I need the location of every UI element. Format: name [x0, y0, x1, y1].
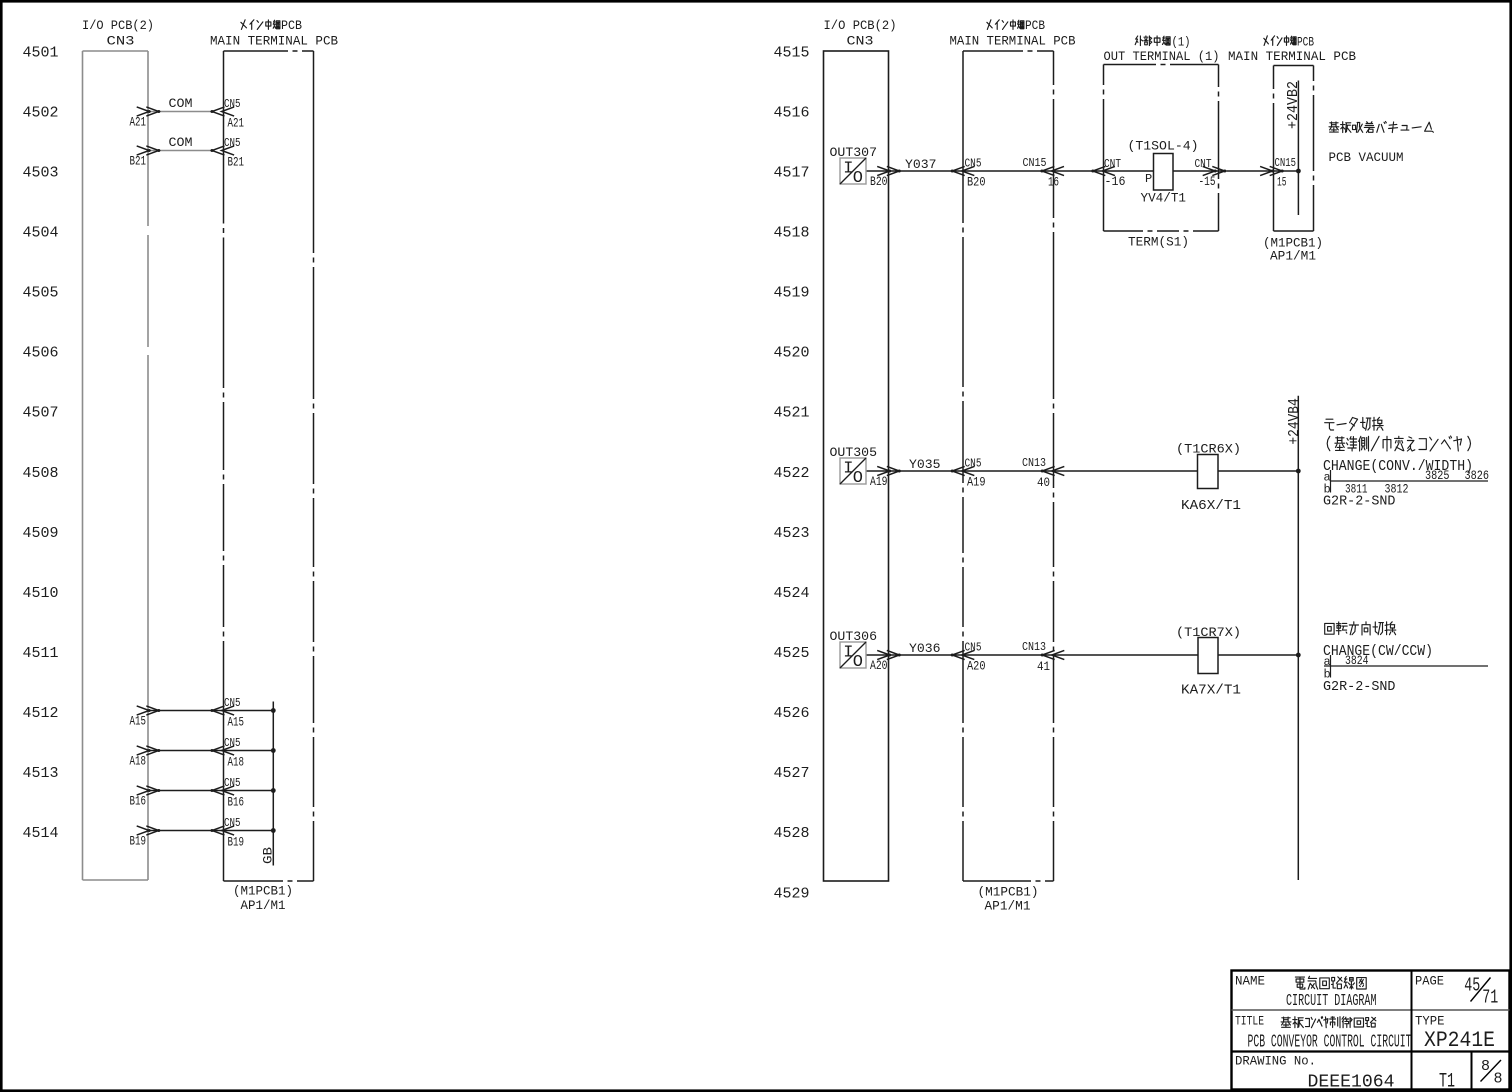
connector plug at CN3 B21 — [137, 146, 159, 155]
dashed box MAIN TERMINAL PCB middle — [963, 51, 1054, 881]
connector plug at CN3 A19 — [877, 466, 899, 475]
svg-text:3825: 3825 — [1425, 468, 1450, 483]
wire relay KA6X to +24VB4 bus (row 4522) — [1218, 470, 1298, 472]
connector plug CN15 at right main terminal — [1260, 166, 1282, 175]
annotation kaiten-hoko-kirikae (kanji) — [1325, 622, 1396, 635]
wire CN5 to CN13 (row 4522) — [963, 470, 1054, 472]
contact a/b divider tick row 4525 — [1330, 655, 1332, 678]
svg-text:16: 16 — [1048, 175, 1059, 190]
svg-text:CN5: CN5 — [224, 696, 241, 710]
svg-text:(M1PCB1): (M1PCB1) — [233, 884, 293, 899]
svg-text:CN5: CN5 — [224, 136, 241, 150]
annotation motor-kirikae (katakana) — [1325, 417, 1383, 430]
svg-text:4522: 4522 — [774, 465, 810, 482]
junction dot GB bus B16 — [271, 788, 276, 793]
svg-text:CNT: CNT — [1195, 157, 1212, 171]
connector socket at CN5 B21 — [212, 146, 234, 155]
wire Y036 from CN3 to CN5 (row 4525) — [890, 654, 964, 656]
title block denki-kairo-senzu (kanji) — [1295, 976, 1366, 989]
svg-text:A15: A15 — [130, 714, 147, 729]
connector socket CN15 at main terminal — [1042, 166, 1064, 175]
svg-text:CN15: CN15 — [1023, 156, 1047, 170]
svg-text:4516: 4516 — [774, 104, 810, 121]
svg-text:CN3: CN3 — [107, 34, 135, 49]
svg-text:PCB CONVEYOR CONTROL CIRCUIT: PCB CONVEYOR CONTROL CIRCUIT — [1248, 1033, 1412, 1053]
connector plug at CN3 A20 — [877, 650, 899, 659]
wire A21 row at y=111.5 — [148, 111, 212, 113]
svg-text:4511: 4511 — [23, 645, 59, 662]
svg-text:4513: 4513 — [23, 765, 59, 782]
svg-text:B19: B19 — [228, 835, 245, 850]
svg-text:G2R-2-SND: G2R-2-SND — [1323, 495, 1396, 510]
title block kiban-conveyor-seigyo-kairo (kanji) — [1281, 1017, 1376, 1028]
junction dot +24VB2 — [1296, 169, 1301, 174]
svg-text:YV4/T1: YV4/T1 — [1141, 191, 1187, 206]
I/O output symbol OUT307 — [840, 158, 890, 188]
svg-text:MAIN TERMINAL PCB: MAIN TERMINAL PCB — [950, 34, 1076, 49]
svg-text:CN5: CN5 — [224, 97, 241, 111]
svg-text:DEEE1064: DEEE1064 — [1308, 1073, 1395, 1092]
connector socket CN13 row 4525 — [1042, 650, 1064, 659]
title block page slash — [1471, 978, 1491, 1002]
svg-text:-16: -16 — [1105, 174, 1126, 189]
svg-text:4515: 4515 — [774, 44, 810, 61]
svg-text:4501: 4501 — [23, 44, 59, 61]
svg-text:A21: A21 — [228, 116, 245, 131]
svg-text:MAIN TERMINAL PCB: MAIN TERMINAL PCB — [1228, 49, 1356, 64]
svg-text:AP1/M1: AP1/M1 — [985, 899, 1031, 914]
svg-text:4529: 4529 — [774, 885, 810, 902]
svg-text:B21: B21 — [130, 154, 147, 169]
svg-text:A19: A19 — [967, 475, 986, 490]
svg-text:CN5: CN5 — [224, 776, 241, 790]
svg-text:OUT307: OUT307 — [830, 145, 878, 160]
svg-text:3824: 3824 — [1345, 653, 1369, 668]
svg-text:4524: 4524 — [774, 585, 810, 602]
svg-text:B16: B16 — [228, 795, 245, 810]
svg-text:I/O PCB(2): I/O PCB(2) — [824, 18, 897, 33]
header gaibu-chukei(1) (kanji) — [1135, 36, 1170, 46]
wire solenoid to CNT-15 (row 4517) — [1173, 170, 1227, 172]
svg-text:CN5: CN5 — [224, 736, 241, 750]
svg-text:4528: 4528 — [774, 825, 810, 842]
wire CN5 to CN13 (row 4525) — [963, 654, 1054, 656]
svg-text:4525: 4525 — [774, 645, 810, 662]
svg-text:T1: T1 — [1439, 1071, 1455, 1092]
header mein-chukei PCB (katakana) left — [241, 20, 280, 30]
connector socket at CN5 B19 — [212, 826, 234, 835]
relay coil KA7X/T1 — [1198, 638, 1218, 674]
svg-text:8: 8 — [1494, 1071, 1503, 1088]
wire A18 row at y=750.5 — [148, 750, 273, 752]
svg-text:4521: 4521 — [774, 405, 810, 422]
svg-text:4512: 4512 — [23, 705, 59, 722]
svg-text:COM: COM — [169, 135, 193, 150]
svg-text:CIRCUIT DIAGRAM: CIRCUIT DIAGRAM — [1286, 992, 1377, 1011]
svg-text:4519: 4519 — [774, 285, 810, 302]
svg-text:15: 15 — [1277, 175, 1287, 190]
svg-text:PCB: PCB — [1025, 18, 1045, 33]
svg-text:P: P — [1145, 172, 1152, 186]
right ladder row numbers 4515-4529 — [774, 44, 810, 902]
wire CN13 to relay KA7X (row 4525) — [1054, 654, 1199, 656]
connector box I/O PCB(2) CN3 left — [83, 51, 149, 880]
connector socket at CN5 A15 — [212, 706, 234, 715]
svg-text:Y036: Y036 — [909, 641, 941, 656]
connector socket at CN5 B16 — [212, 786, 234, 795]
svg-text:O: O — [853, 169, 863, 188]
svg-text:O: O — [853, 653, 863, 672]
wire Y037 from CN3 to CN5 (row 4517) — [890, 170, 964, 172]
svg-text:(1): (1) — [1172, 35, 1191, 50]
annotation (kijungawa/habakae-conveyor) (kanji) — [1327, 436, 1470, 451]
svg-text:TYPE: TYPE — [1415, 1014, 1445, 1029]
connector plug at CN3 A21 — [137, 107, 159, 116]
svg-text:TITLE: TITLE — [1235, 1014, 1264, 1029]
wire CNT-15 to CN15 and +24VB2 bus (row 4517) — [1227, 170, 1299, 172]
svg-text:KA6X/T1: KA6X/T1 — [1181, 499, 1241, 514]
connector plug at CN3 B20 — [877, 166, 899, 175]
connector plug at CN3 A18 — [137, 746, 159, 755]
svg-text:KA7X/T1: KA7X/T1 — [1181, 684, 1241, 699]
I/O output symbol OUT305 — [840, 458, 890, 488]
svg-text:A15: A15 — [228, 715, 245, 730]
connector plug at CN3 B16 — [137, 786, 159, 795]
svg-text:PCB: PCB — [281, 18, 302, 33]
svg-text:OUT306: OUT306 — [830, 629, 878, 644]
svg-text:4509: 4509 — [23, 525, 59, 542]
connector socket at CN5 A21 — [212, 107, 234, 116]
svg-text:CN5: CN5 — [224, 816, 241, 830]
header mein-chukei PCB (katakana) right — [1264, 36, 1296, 46]
svg-text:B19: B19 — [130, 834, 147, 849]
svg-text:GB: GB — [261, 847, 276, 864]
svg-text:A21: A21 — [130, 115, 147, 130]
svg-text:A18: A18 — [228, 755, 245, 770]
junction dot +24VB4 row 4525 — [1296, 653, 1301, 658]
connector plug at CN3 A15 — [137, 706, 159, 715]
svg-text:A20: A20 — [967, 659, 986, 674]
svg-text:OUT TERMINAL (1): OUT TERMINAL (1) — [1104, 49, 1220, 64]
svg-text:4526: 4526 — [774, 705, 810, 722]
svg-text:B20: B20 — [870, 174, 888, 189]
svg-text:4518: 4518 — [774, 225, 810, 242]
svg-text:+24VB4: +24VB4 — [1286, 398, 1303, 444]
dashed box MAIN TERMINAL PCB left — [224, 51, 314, 881]
contact a cross-reference line row 4525 — [1324, 665, 1488, 667]
contact a cross-reference line row 4522 — [1331, 480, 1489, 482]
left ladder row numbers 4501-4514 — [23, 44, 59, 842]
svg-text:CN5: CN5 — [965, 157, 982, 171]
svg-text:CN15: CN15 — [1275, 156, 1297, 170]
junction dot +24VB4 row 4522 — [1296, 469, 1301, 474]
svg-text:Y037: Y037 — [905, 157, 937, 172]
header mein-chukei PCB (katakana) middle — [987, 20, 1024, 30]
+24VB2 power bus vertical wire — [1297, 81, 1299, 216]
solenoid valve YV4/T1 coil — [1154, 154, 1174, 191]
svg-text:40: 40 — [1037, 475, 1050, 490]
svg-text:4523: 4523 — [774, 525, 810, 542]
svg-text:A20: A20 — [870, 658, 888, 673]
svg-text:O: O — [853, 469, 863, 488]
svg-text:B16: B16 — [130, 794, 147, 809]
wire CN13 to relay KA6X (row 4522) — [1054, 470, 1198, 472]
svg-text:4503: 4503 — [23, 164, 59, 181]
wire Y035 from CN3 to CN5 (row 4522) — [890, 470, 964, 472]
connector plug CNT right — [1203, 166, 1225, 175]
connector box I/O PCB(2) CN3 right — [824, 51, 889, 881]
wire B21 row at y=150.5 — [148, 150, 212, 152]
svg-text:3826: 3826 — [1465, 468, 1490, 483]
svg-text:XP241E: XP241E — [1424, 1028, 1495, 1053]
connector socket CN5 row 4517 — [952, 166, 974, 175]
connector socket CN13 row 4522 — [1042, 466, 1064, 475]
svg-text:G2R-2-SND: G2R-2-SND — [1323, 680, 1396, 695]
+24VB4 power bus vertical wire — [1297, 396, 1299, 880]
svg-text:4527: 4527 — [774, 765, 810, 782]
contact a/b divider tick — [1330, 470, 1332, 493]
svg-text:CHANGE(CONV./WIDTH): CHANGE(CONV./WIDTH) — [1323, 458, 1473, 475]
svg-text:-15: -15 — [1199, 174, 1216, 189]
connector socket at CN5 A18 — [212, 746, 234, 755]
svg-text:MAIN TERMINAL PCB: MAIN TERMINAL PCB — [210, 34, 338, 49]
svg-text:CNT: CNT — [1104, 157, 1121, 171]
svg-text:4508: 4508 — [23, 465, 59, 482]
svg-text:4510: 4510 — [23, 585, 59, 602]
title block sheet slash — [1481, 1060, 1502, 1082]
svg-text:TERM(S1): TERM(S1) — [1128, 235, 1189, 250]
svg-text:(T1SOL-4): (T1SOL-4) — [1128, 139, 1199, 154]
connector socket CN5 row 4525 — [952, 650, 974, 659]
svg-text:NAME: NAME — [1235, 974, 1265, 989]
svg-text:PCB VACUUM: PCB VACUUM — [1329, 150, 1404, 165]
svg-text:4520: 4520 — [774, 345, 810, 362]
wire B16 row at y=790.5 — [148, 790, 273, 792]
wire CN5 to OUT TERMINAL (row 4517) — [963, 170, 1104, 172]
svg-text:4517: 4517 — [774, 164, 810, 181]
svg-text:B20: B20 — [967, 175, 986, 190]
wire inside OUT TERMINAL to solenoid (row 4517) — [1104, 170, 1154, 172]
I/O output symbol OUT306 — [840, 642, 890, 672]
svg-text:COM: COM — [169, 96, 193, 111]
connector socket CN5 row 4522 — [952, 466, 974, 475]
wire A15 row at y=710.5 — [148, 710, 273, 712]
svg-text:CN5: CN5 — [965, 641, 982, 655]
wire relay KA7X to +24VB4 bus (row 4525) — [1218, 654, 1298, 656]
svg-text:+24VB2: +24VB2 — [1285, 81, 1302, 129]
svg-text:4506: 4506 — [23, 345, 59, 362]
svg-text:AP1/M1: AP1/M1 — [241, 898, 286, 913]
svg-text:4514: 4514 — [23, 825, 59, 842]
svg-text:(M1PCB1): (M1PCB1) — [978, 885, 1039, 900]
svg-text:CN3: CN3 — [847, 34, 874, 49]
title block frame — [1232, 971, 1510, 1090]
junction dot GB bus A15 — [271, 708, 276, 713]
svg-text:4507: 4507 — [23, 405, 59, 422]
wire B19 row at y=830.5 — [148, 830, 273, 832]
svg-text:CN13: CN13 — [1022, 640, 1046, 654]
svg-text:DRAWING No.: DRAWING No. — [1235, 1054, 1316, 1069]
svg-text:4504: 4504 — [23, 225, 59, 242]
svg-text:CHANGE(CW/CCW): CHANGE(CW/CCW) — [1323, 643, 1433, 660]
relay coil KA6X/T1 — [1198, 455, 1219, 489]
junction dot GB bus A18 — [271, 748, 276, 753]
connector plug at CN3 B19 — [137, 826, 159, 835]
svg-text:CN13: CN13 — [1022, 456, 1046, 470]
svg-text:4505: 4505 — [23, 285, 59, 302]
svg-text:71: 71 — [1482, 987, 1498, 1009]
dash-dot box OUT TERMINAL (1) — [1104, 65, 1219, 232]
svg-text:OUT305: OUT305 — [830, 445, 878, 460]
svg-text:PAGE: PAGE — [1415, 974, 1444, 989]
GB ground bus vertical wire — [272, 702, 274, 866]
svg-text:41: 41 — [1037, 659, 1050, 674]
connector socket CNT at OUT TERMINAL — [1093, 166, 1115, 175]
svg-text:B21: B21 — [228, 155, 245, 170]
svg-text:A18: A18 — [130, 754, 147, 769]
junction dot GB bus B19 — [271, 828, 276, 833]
svg-text:I/O PCB(2): I/O PCB(2) — [82, 18, 154, 33]
svg-text:CN5: CN5 — [965, 457, 982, 471]
svg-text:Y035: Y035 — [909, 457, 941, 472]
svg-text:4502: 4502 — [23, 104, 59, 121]
svg-text:AP1/M1: AP1/M1 — [1270, 249, 1316, 264]
svg-text:A19: A19 — [870, 474, 888, 489]
svg-text:PCB: PCB — [1297, 35, 1314, 50]
annotation kiban-kyuchaku-vacuum (kanji) — [1329, 122, 1433, 133]
dash-dot box MAIN TERMINAL PCB right small — [1274, 66, 1314, 232]
